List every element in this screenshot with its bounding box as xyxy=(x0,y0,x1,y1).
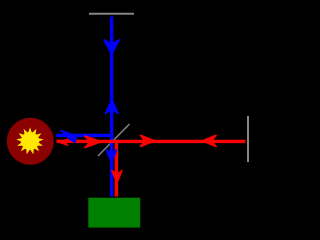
top mirror M1 xyxy=(89,13,134,15)
light source starburst core xyxy=(21,132,39,150)
light source starburst rays xyxy=(16,127,43,154)
wire: red beam vertical (beamsplitter down to detector) xyxy=(115,140,119,197)
light source body xyxy=(7,118,54,165)
arrow: blue up toward top mirror xyxy=(105,98,119,115)
arrow: blue right from source (lower wing swept forward) xyxy=(60,130,77,144)
arrow: red right on right arm xyxy=(139,135,157,147)
arrow: red left toward source xyxy=(57,138,69,145)
right mirror M2 xyxy=(247,116,249,162)
detector xyxy=(88,198,140,228)
wire: blue beam horizontal (source to beamsplitter) xyxy=(56,134,113,137)
arrow: red right long before beamsplitter xyxy=(84,135,104,148)
arrow: red left on right arm xyxy=(200,135,217,147)
arrow: blue down toward detector xyxy=(106,149,118,165)
arrow: red down toward detector xyxy=(111,169,122,185)
arrow: blue down from top mirror xyxy=(103,39,120,57)
wire: blue beam vertical (splitter arm to top mirror and down to detector) xyxy=(110,17,113,197)
wire: red beam horizontal (source to right mirror) xyxy=(57,140,246,143)
beam splitter (half-silvered mirror, diagonal) xyxy=(98,124,130,156)
